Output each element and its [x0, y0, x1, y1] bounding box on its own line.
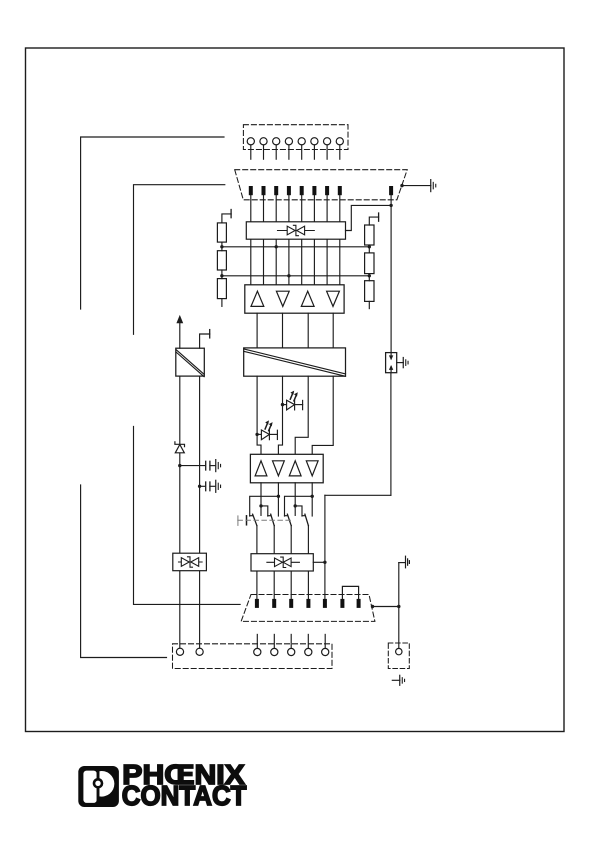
- node L4 bracket junction: [311, 495, 314, 498]
- LED1 tap node: [281, 403, 284, 406]
- resistor R6 (right bottom): [365, 281, 374, 302]
- arrow supply (up): [176, 315, 183, 323]
- wire switch outputs to F3: [256, 526, 258, 554]
- TVS diode symbol in F2: [179, 557, 203, 567]
- node X2 shell junction: [371, 605, 374, 608]
- LED1 (upper): [283, 400, 303, 410]
- wire U2 output 4: [312, 376, 333, 454]
- node left chain junction 1: [220, 245, 223, 248]
- wire left rail 1 (T1 out): [179, 376, 181, 444]
- wire right return net vertical to pin5: [324, 495, 326, 599]
- resistor R2 (left middle): [217, 251, 226, 270]
- terminal block TB2 (dashed, bottom): [173, 644, 333, 669]
- ground symbol (TB3): [400, 675, 405, 685]
- TVS diode symbol in F1: [278, 225, 315, 235]
- wire U3 output 2: [277, 483, 279, 516]
- node rail1 cap junction: [178, 464, 181, 467]
- wire gas tube lower lead: [390, 373, 392, 496]
- U2 isolation double diagonal: [244, 349, 346, 374]
- node earth net junction: [397, 605, 400, 608]
- wire U3 output 1: [260, 483, 262, 516]
- wire left chain top tap: [222, 214, 231, 223]
- wire bus pins to driver (8 vertical wires): [251, 195, 340, 285]
- wire to capacitor C2: [200, 485, 205, 487]
- wire X1 shell to earth: [402, 185, 431, 187]
- resistor R5 (right middle): [365, 253, 374, 274]
- ground symbol (C2): [216, 480, 221, 492]
- wire switch jog 1: [261, 506, 268, 516]
- wire earth net vertical: [398, 563, 400, 649]
- node H2-line4 junction: [287, 274, 290, 277]
- TB3 circle: [396, 648, 402, 654]
- wire bracket A top: [81, 137, 224, 309]
- node right chain junction 2: [368, 274, 371, 277]
- D-sub connector X1 (dashed trapezoid): [235, 170, 408, 200]
- switch S2: [268, 515, 271, 517]
- wire switch jog 2: [295, 506, 302, 516]
- mechanical linkage end bar (light): [237, 516, 239, 525]
- surge protector F3 box (centre): [251, 554, 313, 571]
- wire bracket A bottom: [81, 485, 167, 658]
- wire left resistor chain stubs: [221, 242, 223, 251]
- node rail2 cap junction: [198, 485, 201, 488]
- wire bracket B bottom: [134, 426, 241, 604]
- line driver U3 box: [250, 454, 323, 483]
- terminal tap bar (T1): [209, 330, 211, 338]
- wire switch bracket 2: [285, 496, 313, 516]
- wire F3 outputs to X2 pins: [256, 571, 258, 599]
- wire U3 output 4: [311, 483, 313, 516]
- wire U3 output 3: [294, 483, 296, 516]
- TB1 terminal stub wires: [251, 145, 340, 159]
- wire F4 to earth: [397, 362, 404, 364]
- isolation barrier U2 box: [244, 348, 346, 376]
- node right chain junction 1: [368, 245, 371, 248]
- resistor R3 (left bottom): [217, 279, 226, 299]
- U1 buffer triangles: [251, 291, 339, 306]
- ground symbol GND1 (right-pointing earth): [431, 180, 436, 192]
- wire right chain top tap: [369, 217, 378, 225]
- capacitor C2: [206, 482, 210, 491]
- switch S1: [250, 515, 253, 517]
- wire left rail 2: [199, 376, 201, 553]
- wire U2 output 1: [257, 376, 261, 454]
- power supply T1 box: [176, 348, 205, 376]
- X1 pins 1-8 (filled): [249, 186, 342, 195]
- node L3 jog junction: [294, 504, 297, 507]
- node X1 shell junction: [400, 184, 403, 187]
- LED2 tap node: [255, 433, 258, 436]
- wire TB3 earth stub: [392, 679, 400, 681]
- wire earth net top bend: [399, 562, 406, 564]
- wire F1 to pin9: [346, 205, 392, 230]
- node left chain junction 2: [220, 274, 223, 277]
- horizontal line H2 pull-down rail: [222, 275, 369, 277]
- node L2 bracket junction: [277, 495, 280, 498]
- wire U2 output 3: [295, 376, 308, 454]
- ground symbol (F4): [403, 358, 408, 368]
- TB2 circles left pair: [176, 648, 328, 655]
- wire F3 to return net: [313, 561, 325, 563]
- switch S3: [285, 515, 288, 517]
- wire right return net horizontal: [325, 494, 391, 496]
- terminal tap bar (right chain): [378, 213, 380, 221]
- wire T1 right tap: [200, 334, 210, 348]
- LED1 emission arrows: [290, 391, 298, 401]
- node return net junction: [323, 561, 326, 564]
- Phoenix Contact logo mark: [78, 766, 119, 807]
- gas discharge arrester F4 box: [386, 353, 397, 373]
- X1 pin 9 (filled): [389, 186, 393, 195]
- TB1 screw terminal circles 1-8: [247, 138, 343, 145]
- node H1-line3 junction: [275, 245, 278, 248]
- wire bracket B top: [134, 185, 225, 335]
- wire pin9 vertical: [390, 195, 392, 352]
- wire U2 output 2: [278, 376, 282, 454]
- border frame (decorative): [26, 48, 565, 732]
- wire to capacitor C1: [180, 465, 205, 467]
- wire jumper pin6-pin7: [342, 586, 358, 599]
- surge protector F2 box (left): [173, 553, 207, 571]
- wire right resistor chain stubs: [368, 245, 370, 253]
- TB2 circles right five: [254, 648, 261, 655]
- wire X2 shell to earth net: [373, 606, 399, 608]
- svg-text:CONTACT: CONTACT: [122, 780, 247, 811]
- U3 buffer triangles: [255, 461, 318, 476]
- TVS diode symbol in F3: [267, 557, 300, 567]
- wire supply rail up with arrow: [179, 323, 181, 349]
- zener diode D1: [175, 442, 185, 453]
- F4 internal electrodes: [390, 353, 392, 359]
- T1 double diagonal: [176, 350, 204, 375]
- mechanical linkage dashed line: [238, 519, 291, 521]
- LED2 emission arrows: [265, 420, 273, 430]
- ground symbol (C1): [216, 460, 221, 472]
- terminal block TB3 (dashed, single): [388, 643, 409, 669]
- switch S4: [302, 515, 305, 517]
- terminal block TB1 (dashed): [243, 125, 348, 150]
- wire U1 outputs (4): [256, 313, 258, 348]
- mechanical linkage actuator bar: [246, 516, 248, 525]
- surge protector F1 box: [246, 222, 345, 239]
- capacitor C1: [206, 461, 210, 470]
- line driver U1 box: [245, 285, 344, 313]
- node L1 jog junction: [259, 504, 262, 507]
- resistor R1 (left top): [217, 223, 374, 302]
- LED2 (lower): [257, 430, 277, 440]
- ground symbol (earth net top): [406, 556, 410, 568]
- wire TB2 right stubs: [256, 634, 258, 648]
- node pin9 junction: [389, 204, 392, 207]
- X2 pins 1-7 (filled): [255, 599, 361, 608]
- horizontal line H1 pull-up rail: [222, 246, 369, 248]
- wire switch bracket 1: [250, 496, 279, 516]
- D-sub connector X2 (dashed trapezoid, bottom): [241, 595, 375, 622]
- resistor R4 (right top): [365, 225, 374, 245]
- terminal tap bar (left chain): [230, 210, 232, 218]
